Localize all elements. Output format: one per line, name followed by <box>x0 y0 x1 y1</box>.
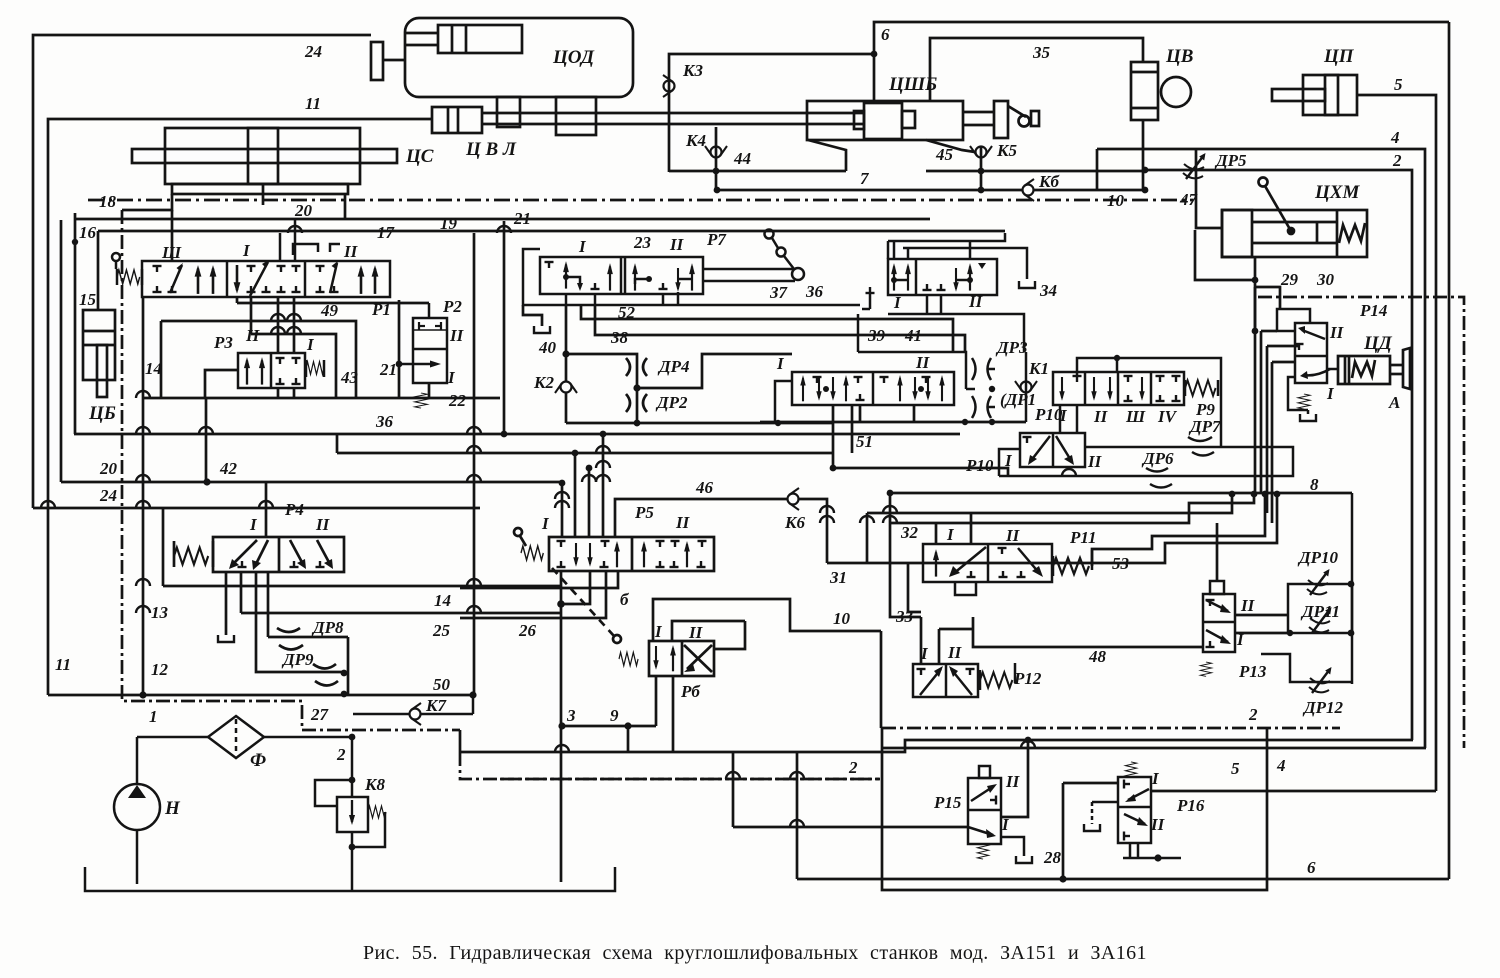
svg-text:II: II <box>675 513 691 532</box>
pump N <box>114 784 160 830</box>
svg-text:Кб: Кб <box>1038 172 1061 191</box>
svg-text:38: 38 <box>610 328 629 347</box>
junction dots <box>871 51 878 58</box>
valve P13 spring below <box>1200 662 1211 676</box>
svg-text:ЦВ: ЦВ <box>1165 46 1193 67</box>
wire line 5 <box>1357 95 1436 791</box>
valve P1 section II arrows <box>330 263 337 293</box>
wire P8 bottom stubs <box>833 405 914 423</box>
wire line 5 bottom <box>1151 790 1436 793</box>
svg-text:Ш: Ш <box>1125 407 1146 426</box>
wire 24 top border <box>33 35 371 508</box>
valve P7 rod link <box>703 268 795 271</box>
svg-text:4: 4 <box>1390 128 1400 147</box>
svg-text:I: I <box>1151 769 1160 788</box>
svg-text:Ш: Ш <box>161 243 182 262</box>
svg-text:ДР2: ДР2 <box>655 393 688 412</box>
svg-text:1: 1 <box>149 707 158 726</box>
svg-text:16: 16 <box>79 223 97 242</box>
wire jump bumps <box>136 391 150 398</box>
svg-text:5: 5 <box>1394 75 1403 94</box>
valve P1 pilot hook <box>293 244 318 255</box>
svg-text:3: 3 <box>566 706 576 725</box>
svg-text:I: I <box>1004 451 1013 470</box>
wire P13 right to DR box <box>1235 614 1288 617</box>
valve P9 top frame <box>1077 358 1221 447</box>
svg-text:21: 21 <box>513 209 531 228</box>
svg-text:32: 32 <box>900 523 919 542</box>
valve P7 section I internals <box>563 261 569 289</box>
svg-text:13: 13 <box>151 603 169 622</box>
svg-text:50: 50 <box>433 675 451 694</box>
wire right border down <box>1448 22 1451 879</box>
valve P15 drain right <box>1001 837 1024 856</box>
cylinder TsShB body <box>807 101 963 140</box>
nodes 3 and 9 <box>562 725 656 728</box>
svg-text:ДР12: ДР12 <box>1302 698 1343 717</box>
svg-text:I: I <box>776 354 785 373</box>
svg-text:ЦШБ: ЦШБ <box>888 74 937 95</box>
cylinder TsV circle <box>1161 77 1191 107</box>
svg-text:49: 49 <box>320 301 339 320</box>
svg-text:2: 2 <box>1392 151 1402 170</box>
valve P13 body <box>1203 594 1235 652</box>
K8 bypass right <box>352 812 385 847</box>
svg-text:10: 10 <box>833 609 851 628</box>
wire P13 solenoid up <box>1216 523 1219 581</box>
valve P5 body <box>549 537 714 571</box>
svg-text:К4: К4 <box>685 131 706 150</box>
svg-text:18: 18 <box>99 192 117 211</box>
wire TsHM box <box>1195 230 1255 280</box>
wire vertical 8 line <box>1351 493 1354 684</box>
valve P1 pilot circle and spring <box>112 253 120 261</box>
dash-dot y=779 <box>460 752 880 779</box>
valve P3 body <box>238 353 305 388</box>
svg-text:ДР11: ДР11 <box>1300 602 1340 621</box>
valve P2 inlet arrow 21 <box>399 363 436 366</box>
svg-text:I: I <box>946 525 955 544</box>
svg-text:ЦХМ: ЦХМ <box>1314 182 1360 203</box>
wire K2 column <box>565 305 568 381</box>
valve P3 spring <box>306 362 324 375</box>
svg-text:36: 36 <box>375 412 394 431</box>
svg-text:20: 20 <box>99 459 118 478</box>
wire node16 <box>72 239 78 245</box>
svg-text:ДР7: ДР7 <box>1188 417 1222 436</box>
wire 52 line <box>581 305 953 352</box>
cylinder TsShB right rod <box>963 111 994 114</box>
bus y=563 <box>827 494 1277 563</box>
valve P4 spring <box>174 548 208 565</box>
svg-text:II: II <box>1005 526 1021 545</box>
svg-text:II: II <box>1005 772 1021 791</box>
wire 53 <box>1092 494 1265 566</box>
wire 51 <box>851 405 854 453</box>
svg-text:II: II <box>1240 596 1256 615</box>
valve P9 body <box>1053 372 1184 405</box>
svg-text:9: 9 <box>610 706 619 725</box>
wire 38 line <box>595 305 965 352</box>
svg-text:I: I <box>242 241 251 260</box>
relief valve K8 <box>337 797 368 832</box>
wire x=733 <box>732 752 735 827</box>
valve P5 pilot <box>514 528 522 536</box>
wire P3 tops <box>278 297 294 353</box>
svg-text:б: б <box>620 590 630 609</box>
TsShB right trapezoid drain <box>926 140 975 152</box>
wire 46 <box>615 499 787 537</box>
svg-text:6: 6 <box>1307 858 1316 877</box>
check valve K4 <box>715 127 718 190</box>
svg-text:40: 40 <box>538 338 557 357</box>
bus y=513 <box>867 494 1232 513</box>
svg-text:19: 19 <box>440 214 458 233</box>
svg-text:Р13: Р13 <box>1238 662 1267 681</box>
svg-text:I: I <box>654 622 663 641</box>
cylinder TsHM body <box>1222 210 1367 257</box>
TsShB right effector <box>994 101 1008 138</box>
svg-text:I: I <box>541 514 550 533</box>
svg-text:Р14: Р14 <box>1359 301 1387 320</box>
svg-text:Р16: Р16 <box>1176 796 1205 815</box>
svg-text:14: 14 <box>434 591 451 610</box>
svg-text:ДР4: ДР4 <box>657 357 690 376</box>
valve P2 top wire <box>428 303 431 318</box>
svg-text:II: II <box>1087 452 1103 471</box>
wire 2 dash bottom <box>500 778 880 781</box>
wire TsV bottom <box>1142 120 1145 190</box>
svg-text:51: 51 <box>856 432 873 451</box>
wire P3 bottoms <box>278 388 294 398</box>
wire line 7 <box>717 189 1022 192</box>
valve P5 dashed link <box>552 568 614 636</box>
cylinder TsOD supports <box>497 97 520 127</box>
wire P11 verticals <box>935 523 938 544</box>
wire DR4/DR2 branch <box>636 384 639 423</box>
svg-text:Р4: Р4 <box>284 500 304 519</box>
rod TsVL to TsShB <box>482 112 864 115</box>
svg-text:Ц В Л: Ц В Л <box>465 139 517 160</box>
svg-text:I: I <box>447 368 456 387</box>
check valve K6 top <box>1023 179 1035 201</box>
wire 11 <box>48 119 432 695</box>
throttle DR2 <box>626 394 630 412</box>
TsD flange A <box>1403 348 1410 389</box>
svg-text:К8: К8 <box>364 775 386 794</box>
svg-text:II: II <box>1329 323 1345 342</box>
svg-text:Р1: Р1 <box>371 300 391 319</box>
valve P8 frame <box>858 352 966 389</box>
svg-text:Н: Н <box>164 798 181 819</box>
cylinder TsHM lever <box>1259 178 1268 187</box>
svg-text:К3: К3 <box>682 61 704 80</box>
tank line <box>85 867 615 891</box>
svg-text:21: 21 <box>379 360 397 379</box>
valve P4 body <box>213 537 344 572</box>
wire P15 feed <box>1001 740 1028 817</box>
cylinder TsV body <box>1131 62 1158 120</box>
cylinder TsS rod <box>132 149 397 163</box>
svg-text:ДР10: ДР10 <box>1297 548 1338 567</box>
svg-text:II: II <box>315 515 331 534</box>
svg-text:К5: К5 <box>996 141 1018 160</box>
bus 49 y=320 <box>161 321 356 398</box>
svg-text:27: 27 <box>310 705 330 724</box>
svg-text:29: 29 <box>1280 270 1299 289</box>
throttle DR12 <box>1309 667 1332 693</box>
bus y=613 <box>241 612 560 615</box>
wire 30 dash-dot <box>1258 297 1464 748</box>
svg-text:2: 2 <box>848 758 858 777</box>
wire line 4 <box>1097 149 1425 748</box>
svg-text:II: II <box>669 235 685 254</box>
valve P16 body <box>1118 777 1151 843</box>
bus y=586 <box>163 585 560 588</box>
svg-text:7: 7 <box>860 169 870 188</box>
valve PA port stems <box>894 241 970 259</box>
svg-text:I: I <box>306 335 315 354</box>
valve P14 top bracket <box>1277 309 1310 331</box>
bus y=752 <box>460 740 1413 752</box>
wire 6 from P5 <box>460 571 618 588</box>
check valve K6 mid <box>788 488 800 510</box>
svg-text:2: 2 <box>336 745 346 764</box>
valve P7 section II internals <box>632 263 638 291</box>
svg-text:52: 52 <box>618 303 636 322</box>
box DR11 <box>1288 584 1352 633</box>
svg-text:30: 30 <box>1316 270 1335 289</box>
wire bus right of TsShB <box>926 170 1145 173</box>
bus y=523 <box>890 494 1254 523</box>
wire P16 left <box>1063 782 1118 785</box>
svg-text:К1: К1 <box>1028 359 1049 378</box>
svg-text:ЦД: ЦД <box>1363 333 1393 354</box>
wire K3 line <box>669 54 874 172</box>
svg-text:36: 36 <box>805 282 824 301</box>
svg-text:ДР3: ДР3 <box>995 338 1028 357</box>
svg-text:ДР8: ДР8 <box>311 618 344 637</box>
svg-text:4: 4 <box>1276 756 1286 775</box>
valve P11 drain stub <box>955 582 976 595</box>
svg-text:12: 12 <box>151 660 169 679</box>
bus pack right <box>890 492 1352 495</box>
bus y=398 <box>143 397 500 400</box>
svg-text:II: II <box>947 643 963 662</box>
wire 18 <box>122 194 172 210</box>
svg-text:41: 41 <box>904 326 922 345</box>
svg-text:53: 53 <box>1112 554 1130 573</box>
valve P4 outputs <box>240 572 243 586</box>
valve P1 section III arrows <box>153 266 162 272</box>
wire P6 bottoms <box>655 676 658 726</box>
svg-text:ДР6: ДР6 <box>1141 449 1174 468</box>
cylinder TsS base <box>172 184 348 194</box>
svg-text:К6: К6 <box>784 513 806 532</box>
bus 24 y=508 <box>33 507 480 510</box>
svg-text:Р7: Р7 <box>706 230 727 249</box>
svg-text:Рб: Рб <box>680 682 701 701</box>
check valve K5 <box>980 147 983 190</box>
svg-text:11: 11 <box>55 655 71 674</box>
valve P2 body <box>413 318 447 383</box>
svg-text:5: 5 <box>1231 759 1240 778</box>
svg-text:46: 46 <box>695 478 714 497</box>
box P15 P16 <box>882 727 1267 890</box>
throttle DR3 <box>972 358 976 380</box>
valve P15 spring below <box>977 844 988 859</box>
bus y=453 <box>337 434 833 453</box>
wire x=172 to P1 <box>171 210 174 261</box>
svg-text:ДР9: ДР9 <box>281 650 314 669</box>
bus 8 nodes <box>1229 491 1236 498</box>
wire 21 vertical <box>398 300 401 398</box>
bus 36 y=434 <box>74 433 960 436</box>
svg-text:II: II <box>1150 815 1166 834</box>
wire DR9 box <box>256 613 342 672</box>
svg-text:39: 39 <box>867 326 886 345</box>
svg-text:31: 31 <box>829 568 847 587</box>
valve P11 spring <box>1053 558 1089 574</box>
bus y=423 <box>566 422 833 425</box>
valve P16 left drain <box>1092 801 1118 804</box>
right vertical cluster <box>1254 287 1257 493</box>
valve P16 spring top <box>1125 762 1136 777</box>
svg-text:ЦС: ЦС <box>405 146 434 167</box>
valve P16 pedestal <box>1130 843 1138 858</box>
valve P8 body <box>792 372 954 405</box>
valve P7 left pilot box <box>523 249 611 305</box>
check valve K7 <box>353 713 473 716</box>
svg-text:Р2: Р2 <box>442 297 462 316</box>
dash-dot pilot x=122 <box>122 210 460 730</box>
wire P14 to TsD <box>1327 368 1338 371</box>
top right border line 6 <box>874 22 1449 101</box>
svg-text:II: II <box>1093 407 1109 426</box>
check valve K1 <box>1025 352 1028 422</box>
wire 16 bus <box>98 230 1005 233</box>
throttle DR4 <box>626 358 630 376</box>
valve P15 body <box>968 778 1001 844</box>
throttle DR10 <box>1307 569 1330 595</box>
valve P1 top stems <box>280 220 295 261</box>
wire TsS right leg <box>344 194 347 219</box>
wire line 2 right <box>1145 170 1412 740</box>
svg-text:37: 37 <box>769 283 789 302</box>
valve P1 body <box>142 261 390 297</box>
svg-text:Р10: Р10 <box>965 456 994 475</box>
svg-text:II: II <box>688 623 704 642</box>
valve P6 pilot <box>613 635 621 643</box>
svg-text:28: 28 <box>1043 848 1062 867</box>
valve P4 drain <box>225 572 228 635</box>
svg-text:I: I <box>249 515 258 534</box>
svg-text:I: I <box>920 644 929 663</box>
cylinder TsD <box>1338 356 1390 384</box>
svg-text:17: 17 <box>377 223 396 242</box>
svg-text:II: II <box>343 242 359 261</box>
svg-text:I: I <box>1326 384 1335 403</box>
wire bus y=303 <box>237 302 429 305</box>
long dash-dot line y=200 <box>88 199 1193 202</box>
valve P14 bracket drain <box>1288 377 1308 410</box>
cylinder TsP <box>1303 75 1357 115</box>
svg-text:Р3: Р3 <box>213 333 233 352</box>
valve P4 pilot top <box>265 482 268 537</box>
valve P12 spring <box>980 672 1012 687</box>
valve P2 spring below <box>415 393 428 408</box>
svg-text:Р15: Р15 <box>933 793 962 812</box>
throttle DR6 arcs <box>1146 468 1168 472</box>
cylinder TsOD body <box>405 18 633 97</box>
svg-text:ЦП: ЦП <box>1323 46 1355 67</box>
wire x=143 long <box>142 297 145 695</box>
valve PA left T <box>866 287 875 293</box>
wire y=827 to P15 <box>733 826 968 829</box>
throttle DR9 arcs <box>279 645 303 650</box>
svg-text:К2: К2 <box>533 373 555 392</box>
wire x=504 <box>503 221 506 434</box>
svg-text:47: 47 <box>1179 190 1199 209</box>
svg-text:44: 44 <box>733 149 751 168</box>
cylinder TsOD left bracket <box>371 42 383 80</box>
wire x=474 <box>473 233 476 695</box>
wire 29 <box>1254 280 1257 331</box>
svg-text:II: II <box>449 326 465 345</box>
valve P11 body <box>923 544 1052 582</box>
valve P1 section I arrows <box>234 265 241 294</box>
throttle DR5 <box>1183 153 1206 179</box>
K8 bypass left <box>315 780 352 806</box>
throttle DR8 <box>277 628 300 632</box>
cylinder TsHM spring <box>1339 223 1365 243</box>
bus 50 y=695 <box>48 694 473 697</box>
valve P10 left box <box>999 449 1020 476</box>
svg-text:Рис. 55. Гидравлическая схем: Рис. 55. Гидравлическая схема круглошлиф… <box>363 942 1147 964</box>
wire node 40 branch <box>566 354 637 384</box>
svg-text:Р5: Р5 <box>634 503 654 522</box>
svg-text:Р12: Р12 <box>1013 669 1042 688</box>
box DR12 <box>1261 654 1352 682</box>
bus 6 y=879 <box>797 878 1449 881</box>
svg-text:42: 42 <box>219 459 238 478</box>
valve P12 body <box>913 664 978 697</box>
svg-text:II: II <box>915 353 931 372</box>
valve P5 top wires <box>561 483 564 537</box>
wire P12 connections <box>920 617 923 664</box>
svg-text:22: 22 <box>448 391 467 410</box>
bus y=468 <box>833 468 1008 476</box>
wire bus under TsShB left <box>669 170 846 173</box>
valve P8 left bracket <box>775 381 792 422</box>
bus y=334 <box>251 334 336 398</box>
svg-text:2: 2 <box>1248 705 1258 724</box>
svg-text:11: 11 <box>305 94 321 113</box>
svg-text:ДР5: ДР5 <box>1214 151 1247 170</box>
valve P5 bottom elbows <box>561 571 590 604</box>
valve PA body <box>888 259 997 295</box>
svg-text:45: 45 <box>935 145 954 164</box>
bus y=588 left <box>460 617 561 620</box>
svg-text:25: 25 <box>432 621 451 640</box>
svg-text:IV: IV <box>1157 407 1178 426</box>
bus 20 y=482 <box>61 481 562 484</box>
svg-text:(ДР1: (ДР1 <box>1000 390 1036 409</box>
TsShB left trapezoid drain <box>808 140 846 171</box>
wire 35 <box>930 38 1143 101</box>
svg-text:Р11: Р11 <box>1069 528 1096 547</box>
throttle DR7 arcs <box>1188 437 1212 441</box>
